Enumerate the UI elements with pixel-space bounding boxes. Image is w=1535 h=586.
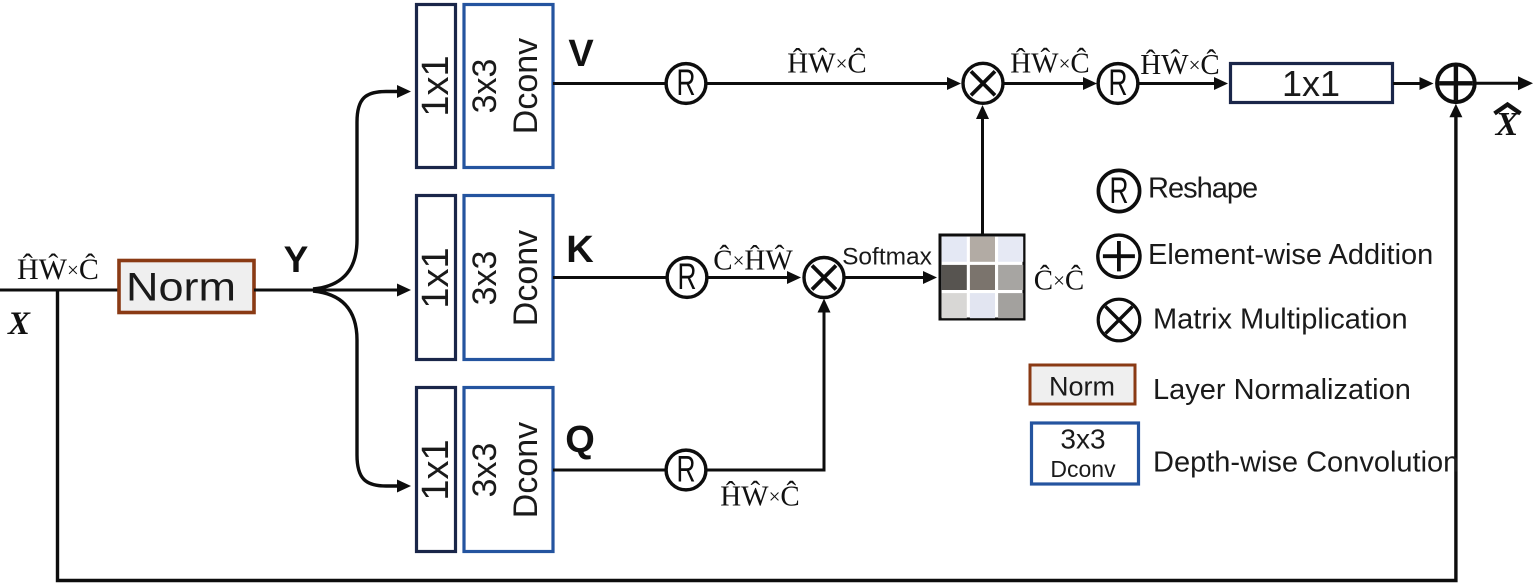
wire: R4 right then up to M2 xyxy=(706,312,824,470)
reshape R3 xyxy=(667,258,707,298)
wire: K out to R3 xyxy=(553,276,667,279)
norm box N1 xyxy=(119,261,254,313)
svg-text:Ĉ×ĤŴ: Ĉ×ĤŴ xyxy=(713,244,793,277)
svg-text:Dconv: Dconv xyxy=(507,38,545,134)
svg-text:ĤŴ×Ĉ: ĤŴ×Ĉ xyxy=(1010,47,1090,80)
conv block Q: 3x3 dconv box xyxy=(464,388,553,552)
wire: norm to branch xyxy=(254,289,318,292)
svg-text:1x1: 1x1 xyxy=(415,55,457,116)
svg-text:R: R xyxy=(678,256,697,297)
wire: M1 to R2 xyxy=(1004,82,1084,85)
svg-text:3x3: 3x3 xyxy=(466,251,504,306)
attention map grid xyxy=(940,235,1024,319)
svg-text:ĤŴ×Ĉ: ĤŴ×Ĉ xyxy=(720,480,800,513)
wire: M2 to attention grid xyxy=(845,276,924,279)
svg-text:Dconv: Dconv xyxy=(1050,456,1116,482)
svg-text:R: R xyxy=(1109,62,1128,103)
wire: branch to K block arrow xyxy=(312,289,398,292)
svg-text:Reshape: Reshape xyxy=(1148,173,1257,205)
adder A1 xyxy=(1437,65,1475,103)
wire: Q out to R4 xyxy=(553,469,666,472)
wire: R1 to matmul xyxy=(706,82,947,85)
svg-text:1x1: 1x1 xyxy=(1282,63,1340,104)
svg-text:R: R xyxy=(677,449,696,490)
svg-text:3x3: 3x3 xyxy=(1060,424,1105,455)
wire: branch curve up to V block xyxy=(313,92,398,290)
svg-text:Layer Normalization: Layer Normalization xyxy=(1153,374,1411,406)
svg-text:ĤŴ×Ĉ: ĤŴ×Ĉ xyxy=(787,47,867,80)
svg-text:Dconv: Dconv xyxy=(507,422,545,518)
svg-text:Dconv: Dconv xyxy=(507,230,545,326)
svg-text:R: R xyxy=(677,62,696,103)
wire: adder to output xyxy=(1477,82,1520,85)
svg-text:K: K xyxy=(566,229,594,271)
svg-text:Y: Y xyxy=(284,239,309,280)
svg-text:Element-wise Addition: Element-wise Addition xyxy=(1148,239,1433,271)
svg-text:X: X xyxy=(7,306,31,342)
matmul M1 (top) xyxy=(963,63,1003,103)
svg-text:ĤŴ×Ĉ: ĤŴ×Ĉ xyxy=(1140,48,1220,81)
legend norm box xyxy=(1030,365,1135,404)
svg-text:Norm: Norm xyxy=(1049,372,1115,402)
svg-text:R: R xyxy=(1110,170,1129,211)
legend reshape icon xyxy=(1098,170,1139,211)
conv block V: 3x3 dconv box xyxy=(464,5,553,168)
matmul M2 (K row) xyxy=(804,258,844,298)
wire: 1x1 box to adder xyxy=(1393,82,1420,85)
svg-text:Matrix Multiplication: Matrix Multiplication xyxy=(1153,304,1408,336)
svg-text:Ĉ×Ĉ: Ĉ×Ĉ xyxy=(1034,264,1085,297)
wire: grid up to matmul M1 xyxy=(981,119,984,236)
conv block K: 3x3 dconv box xyxy=(464,196,553,360)
svg-text:V: V xyxy=(568,33,594,75)
svg-text:ĤŴ×Ĉ: ĤŴ×Ĉ xyxy=(17,253,99,286)
svg-text:Depth-wise Convolution: Depth-wise Convolution xyxy=(1153,447,1459,479)
svg-text:3x3: 3x3 xyxy=(466,443,504,498)
wire: R2 to 1x1 box xyxy=(1139,82,1216,85)
wire: skip connection down, across, and up to adder xyxy=(58,117,1456,581)
reshape R2 xyxy=(1098,64,1138,104)
conv block K: 1x1 box xyxy=(417,196,456,360)
conv 1x1 output box xyxy=(1231,64,1393,103)
legend adder icon xyxy=(1098,235,1140,277)
conv block Q: 1x1 box xyxy=(417,388,456,552)
wire: V out to R1 xyxy=(553,82,667,85)
svg-text:Softmax: Softmax xyxy=(842,244,932,271)
svg-text:1x1: 1x1 xyxy=(415,247,457,308)
conv block V: 1x1 box xyxy=(417,5,456,168)
svg-text:3x3: 3x3 xyxy=(466,59,504,114)
wire: main input line X xyxy=(0,289,118,292)
reshape R1 xyxy=(666,64,706,104)
reshape R4 xyxy=(666,450,706,490)
svg-text:Norm: Norm xyxy=(126,266,236,310)
svg-text:1x1: 1x1 xyxy=(415,439,457,500)
legend matmul icon xyxy=(1098,299,1140,341)
wire: branch curve down to Q block xyxy=(313,291,398,486)
legend dconv box xyxy=(1032,423,1139,484)
wire: R3 to matmul M2 xyxy=(707,276,788,279)
svg-text:Q: Q xyxy=(565,419,595,461)
